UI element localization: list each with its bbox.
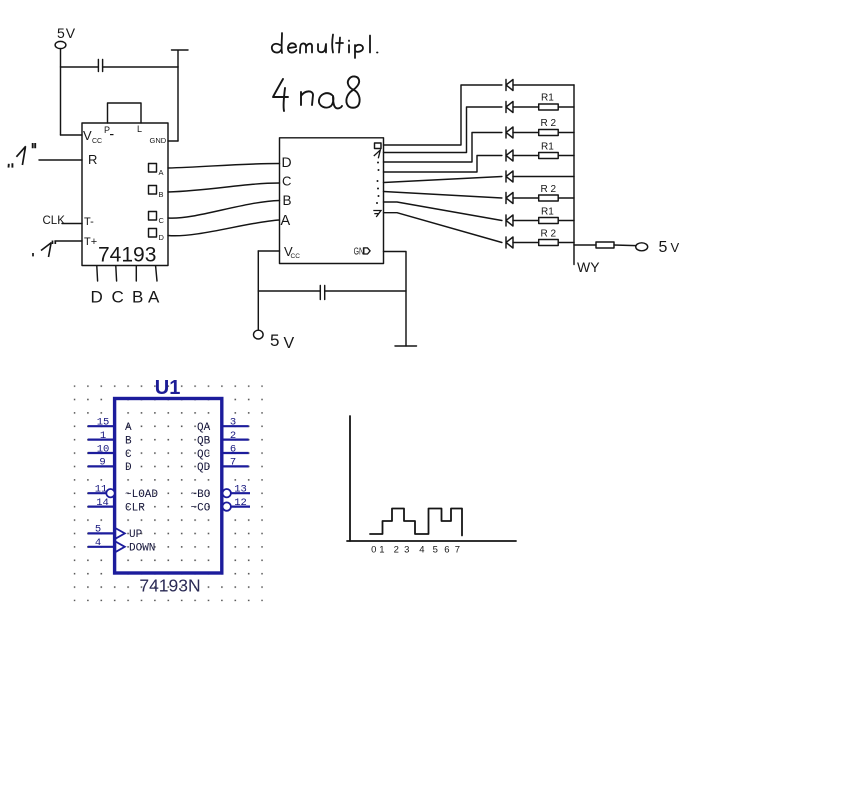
svg-text:QA: QA xyxy=(197,422,211,434)
bubble ~BO xyxy=(223,489,231,497)
svg-text:1: 1 xyxy=(100,430,106,442)
svg-text:B: B xyxy=(125,435,132,447)
svg-text:DOWN: DOWN xyxy=(129,543,155,555)
svg-text:CLK: CLK xyxy=(43,215,66,227)
wire P-L bracket xyxy=(108,103,142,123)
svg-text:4: 4 xyxy=(419,545,424,556)
pin QB square xyxy=(149,186,157,195)
svg-text:D: D xyxy=(91,288,103,307)
svg-text:P: P xyxy=(104,125,110,135)
svg-text:CC: CC xyxy=(291,253,301,260)
resistor R2 row6 xyxy=(539,195,574,201)
pin QC square xyxy=(149,212,157,221)
svg-text:QB: QB xyxy=(197,435,211,447)
label "1" at T+ xyxy=(41,243,52,258)
LED D3 xyxy=(506,127,539,138)
LED D4 xyxy=(506,150,539,161)
pin 7 wire xyxy=(222,465,249,467)
svg-text:QD: QD xyxy=(197,462,211,474)
svg-text:U1: U1 xyxy=(155,377,181,399)
wire QC to B xyxy=(168,201,280,219)
wire Vcc input xyxy=(258,250,279,252)
clock triangle DOWN xyxy=(115,541,125,552)
pin 15 wire xyxy=(88,425,115,427)
svg-text:7: 7 xyxy=(230,457,236,469)
node WY bus xyxy=(573,85,575,265)
wire out1 xyxy=(384,107,502,153)
pin A stub xyxy=(156,266,157,281)
labels group (hand printed) xyxy=(9,25,680,352)
svg-text:B: B xyxy=(283,193,292,208)
svg-text:R1: R1 xyxy=(541,207,554,218)
wire out0 xyxy=(384,85,502,145)
svg-text:7: 7 xyxy=(455,545,460,556)
svg-text:V: V xyxy=(83,128,92,143)
svg-text:11: 11 xyxy=(95,484,108,496)
svg-text:R1: R1 xyxy=(541,93,554,104)
label "1" at R xyxy=(16,146,25,165)
IC demux 4-to-8 body xyxy=(280,138,384,264)
pin 3 wire xyxy=(222,425,249,427)
svg-text:~LOAD: ~LOAD xyxy=(125,489,158,501)
resistor R1 row2 xyxy=(539,104,574,110)
wire xyxy=(61,66,99,68)
svg-text:B: B xyxy=(159,190,164,199)
axis horizontal xyxy=(347,540,516,542)
capacitor C1 xyxy=(98,60,102,72)
pin QD square xyxy=(149,229,157,238)
svg-text:C: C xyxy=(125,449,132,461)
pin QA square xyxy=(149,164,157,173)
waveform staircase xyxy=(370,509,462,536)
pin 13 wire xyxy=(231,492,250,494)
wire xyxy=(614,244,636,247)
svg-text:5: 5 xyxy=(659,239,668,256)
resistor R2 row3 xyxy=(539,130,574,136)
title 4 na 8 handwritten xyxy=(273,76,360,111)
svg-text:UP: UP xyxy=(129,529,143,541)
wire out4 xyxy=(384,177,502,183)
svg-text:10: 10 xyxy=(97,443,110,455)
svg-text:A: A xyxy=(125,422,132,434)
clock triangle UP xyxy=(115,528,125,539)
svg-text:T-: T- xyxy=(84,216,94,228)
svg-text:WY: WY xyxy=(577,259,600,275)
wire out3 xyxy=(384,156,502,173)
IC U1 74193N body xyxy=(115,399,222,574)
svg-text:14: 14 xyxy=(96,497,109,509)
pin 0 square label xyxy=(375,143,382,149)
svg-text:V: V xyxy=(671,240,680,255)
wire bypass xyxy=(258,290,320,292)
capacitor C2 xyxy=(320,286,324,300)
svg-text:C: C xyxy=(112,288,124,307)
svg-text:V: V xyxy=(284,335,295,352)
waveform chart xyxy=(347,416,516,541)
svg-text:15: 15 xyxy=(97,417,110,429)
wire T+ input xyxy=(55,240,82,242)
svg-text:A: A xyxy=(281,213,291,229)
power terminal 5V (right) xyxy=(636,243,648,251)
svg-text:GN: GN xyxy=(354,245,364,257)
svg-text:R 2: R 2 xyxy=(541,118,557,129)
pin 11 wire xyxy=(88,492,107,494)
wire QD to A xyxy=(168,220,280,236)
wire xyxy=(177,67,179,141)
svg-text:74193: 74193 xyxy=(98,244,156,267)
pin 2 wire xyxy=(222,439,249,441)
resistor feed xyxy=(596,242,614,248)
wire R input xyxy=(39,159,82,161)
svg-text:2: 2 xyxy=(230,430,236,442)
svg-text:0: 0 xyxy=(371,545,376,556)
svg-text:12: 12 xyxy=(234,497,247,509)
wire 5V feed xyxy=(574,244,596,246)
pin B stub xyxy=(135,266,137,281)
bubble ~CO xyxy=(223,502,231,510)
antenna T symbol xyxy=(172,50,189,67)
wire GND out xyxy=(384,252,407,347)
wire xyxy=(168,140,178,142)
power terminal 5V (top left) xyxy=(55,41,66,48)
LED D8 xyxy=(506,237,539,248)
pin C stub xyxy=(115,266,118,281)
svg-text:5V: 5V xyxy=(57,25,76,41)
svg-text:A: A xyxy=(159,168,164,177)
svg-text:6: 6 xyxy=(444,545,449,556)
LED D1 xyxy=(506,80,574,91)
wire out7 xyxy=(384,213,502,243)
pin 5 wire xyxy=(88,532,115,534)
svg-text:QC: QC xyxy=(197,449,211,461)
svg-text:~BO: ~BO xyxy=(191,489,211,501)
svg-text:A: A xyxy=(148,288,160,307)
svg-text:L: L xyxy=(137,124,142,134)
pin 6 wire xyxy=(222,452,249,454)
LED D7 xyxy=(506,215,539,226)
wire out6 xyxy=(384,202,502,221)
svg-text:3: 3 xyxy=(230,417,236,429)
svg-text:C: C xyxy=(159,216,165,225)
svg-text:5: 5 xyxy=(270,331,279,350)
svg-text:9: 9 xyxy=(99,457,105,469)
svg-text:CC: CC xyxy=(92,138,102,145)
resistor R1 row4 xyxy=(539,153,574,159)
axis vertical xyxy=(349,416,351,541)
wire bypass right xyxy=(325,290,406,292)
pin 9 wire xyxy=(88,465,115,467)
svg-text:D: D xyxy=(159,233,165,242)
svg-text:~CO: ~CO xyxy=(191,502,211,514)
svg-text:R: R xyxy=(88,152,97,167)
svg-text:R 2: R 2 xyxy=(541,229,557,240)
svg-text:2: 2 xyxy=(394,545,399,556)
wire QA to D xyxy=(168,164,280,169)
LED rows group xyxy=(506,80,648,265)
dots xyxy=(377,162,379,164)
LED D6 xyxy=(506,193,539,204)
wire xyxy=(103,66,178,68)
svg-text:13: 13 xyxy=(234,484,247,496)
pin 14 wire xyxy=(88,506,115,508)
resistor R2 row8 xyxy=(539,240,574,246)
wire out2 xyxy=(384,133,502,163)
LED D5 xyxy=(506,171,574,182)
svg-text:3: 3 xyxy=(404,545,409,556)
pin 12 wire xyxy=(231,506,250,508)
svg-text:4: 4 xyxy=(95,537,101,549)
label out 7 xyxy=(373,211,381,218)
svg-text:T+: T+ xyxy=(84,236,97,248)
svg-text:CLR: CLR xyxy=(125,502,145,514)
svg-text:5: 5 xyxy=(95,524,101,536)
pin 10 wire xyxy=(88,452,115,454)
wire QB to C xyxy=(168,183,280,192)
svg-text:C: C xyxy=(282,174,291,189)
svg-text:5: 5 xyxy=(433,545,438,556)
power terminal 5V (bottom) xyxy=(253,330,263,339)
LED D2 xyxy=(506,102,539,113)
resistor R1 row7 xyxy=(539,218,574,224)
label out 1 xyxy=(374,150,381,158)
pin D stub xyxy=(96,266,99,281)
svg-text:6: 6 xyxy=(230,443,236,455)
svg-text:1: 1 xyxy=(379,545,384,556)
ground xyxy=(395,345,417,347)
svg-text:R 2: R 2 xyxy=(541,184,557,195)
wire CLK to T- xyxy=(62,223,82,225)
pin 1 wire xyxy=(88,439,115,441)
wire out5 xyxy=(384,192,502,199)
title demultipl. handwritten xyxy=(272,33,378,58)
svg-text:B: B xyxy=(132,288,143,307)
U1 Multisim symbol xyxy=(74,377,263,601)
svg-text:GND: GND xyxy=(150,136,167,145)
svg-text:74193N: 74193N xyxy=(139,576,200,596)
wire xyxy=(60,49,62,135)
svg-text:D: D xyxy=(282,154,292,170)
bubble ~LOAD xyxy=(106,489,114,497)
IC U2 74193 counter body xyxy=(82,123,168,266)
pin 4 wire xyxy=(88,546,115,548)
svg-text:D: D xyxy=(125,462,132,474)
wire xyxy=(61,134,83,136)
wire Vcc vertical xyxy=(257,251,259,330)
svg-text:R1: R1 xyxy=(541,142,554,153)
